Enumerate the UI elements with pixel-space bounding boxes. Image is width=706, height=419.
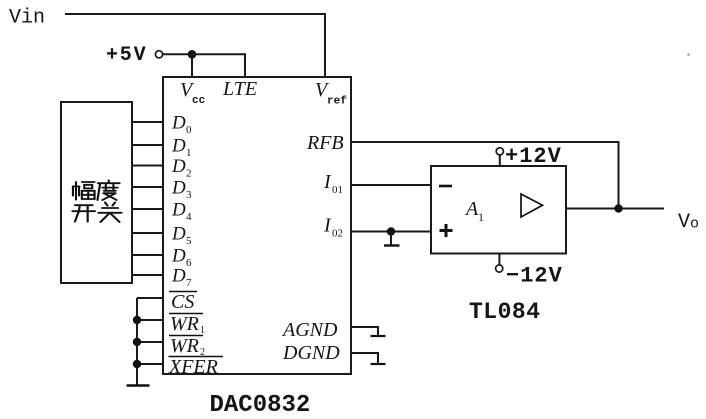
junction dot output node: [614, 204, 622, 212]
svg-text:D: D: [171, 246, 186, 267]
svg-text:7: 7: [186, 277, 192, 289]
svg-text:A: A: [464, 198, 479, 220]
power -12V label: [506, 264, 563, 289]
wire I02 to op-amp plus: [351, 231, 431, 233]
wire Vin to Vref: [65, 14, 325, 77]
wire D3: [132, 186, 163, 188]
wire +5V to LTE: [192, 54, 245, 77]
pin label WR1 (overline): [169, 313, 205, 336]
wire DGND: [351, 353, 378, 364]
svg-text:D: D: [171, 136, 186, 157]
svg-text:TL084: TL084: [469, 299, 541, 325]
pin label I02: [323, 215, 343, 240]
wire D0: [132, 121, 163, 123]
svg-text:+12V: +12V: [505, 144, 562, 169]
wire WR2: [137, 341, 163, 343]
pin label D5: [171, 224, 192, 248]
svg-text:01: 01: [332, 184, 343, 196]
svg-text:Vin: Vin: [9, 7, 45, 30]
svg-text:1: 1: [478, 210, 484, 224]
svg-text:AGND: AGND: [281, 319, 338, 341]
pin label D1: [171, 136, 192, 160]
op-amp gain triangle: [521, 194, 543, 217]
node Vin label: [9, 7, 45, 30]
svg-text:−12V: −12V: [506, 264, 563, 289]
pin label XFER (overline): [168, 356, 223, 378]
pin label D2: [171, 156, 192, 180]
svg-text:I: I: [323, 171, 332, 193]
wire D5: [132, 232, 163, 234]
svg-text:D: D: [171, 113, 186, 134]
svg-text:D: D: [171, 178, 186, 199]
wire XFER: [137, 363, 163, 365]
char 关: [99, 202, 122, 222]
op-amp plus input sign: [440, 224, 453, 237]
pin label LTE: [222, 78, 257, 100]
svg-text:D: D: [171, 200, 186, 221]
svg-text:D: D: [171, 266, 186, 287]
svg-text:I: I: [323, 215, 332, 237]
svg-text:ref: ref: [327, 96, 347, 108]
svg-text:0: 0: [186, 124, 192, 136]
svg-text:5: 5: [186, 235, 192, 247]
wire D1: [132, 144, 163, 146]
svg-text:XFER: XFER: [168, 356, 218, 378]
junction dot XFER: [133, 360, 141, 368]
svg-text:WR: WR: [170, 313, 199, 335]
wire I01 to op-amp minus: [351, 184, 431, 186]
wire WR1: [137, 319, 163, 321]
wire Vcc stub: [191, 54, 193, 77]
pin label D4: [171, 200, 192, 224]
svg-text:6: 6: [186, 257, 192, 269]
char 幅: [73, 182, 95, 200]
wire D7: [132, 274, 163, 276]
pin label D3: [171, 178, 192, 202]
svg-text:02: 02: [332, 228, 343, 240]
wire +5V to Vcc junction: [163, 53, 192, 55]
char 度: [97, 180, 119, 200]
op-amp minus input sign: [439, 185, 452, 188]
wire D4: [132, 208, 163, 210]
op-amp name TL084: [469, 299, 541, 325]
pin label RFB: [306, 132, 344, 154]
power -12V terminal: [496, 254, 503, 272]
IC DAC0832 body: [163, 77, 351, 374]
pin label CS (overline): [169, 291, 197, 313]
svg-text:+5V: +5V: [106, 44, 147, 67]
svg-text:4: 4: [186, 211, 192, 223]
ground DGND: [371, 363, 386, 365]
pin label Vcc: [180, 79, 205, 107]
wire CS: [137, 297, 163, 299]
svg-text:DGND: DGND: [282, 342, 340, 364]
pin label Vref: [315, 79, 347, 108]
svg-text:2: 2: [186, 168, 192, 180]
svg-text:D: D: [171, 224, 186, 245]
node Vo label: [678, 211, 699, 234]
terminal +5V open circle: [155, 51, 162, 58]
svg-text:V: V: [678, 211, 690, 234]
char 开: [72, 205, 95, 221]
ground control bus: [127, 384, 150, 387]
wire D2: [132, 165, 163, 167]
op-amp label A1: [464, 198, 484, 224]
pin label D6: [171, 246, 192, 270]
junction dot +5V/Vcc: [188, 50, 197, 59]
svg-text:1: 1: [200, 325, 205, 336]
IC name DAC0832: [210, 392, 311, 419]
svg-text:3: 3: [186, 189, 192, 201]
junction dot I02 ground: [387, 227, 395, 235]
stray scan dot: [687, 53, 690, 56]
pin label WR2 (overline): [169, 335, 205, 358]
power +12V terminal: [496, 148, 503, 166]
ground I02: [384, 232, 400, 246]
svg-text:CS: CS: [171, 291, 194, 313]
pin label D7: [171, 266, 192, 290]
svg-text:LTE: LTE: [222, 78, 257, 100]
wire D6: [132, 254, 163, 256]
svg-text:RFB: RFB: [306, 132, 344, 154]
wire output Vo: [566, 208, 664, 210]
junction dot WR1: [133, 316, 141, 324]
op-amp A1 body: [431, 166, 566, 254]
svg-text:1: 1: [186, 147, 192, 159]
power +12V label: [505, 144, 562, 169]
wire AGND: [351, 327, 378, 336]
svg-text:cc: cc: [192, 95, 205, 107]
power +5V label: [106, 44, 147, 67]
svg-text:WR: WR: [170, 335, 199, 357]
svg-text:D: D: [171, 156, 186, 177]
wire RFB feedback: [351, 142, 619, 209]
ground AGND: [371, 335, 386, 337]
junction dot WR2: [133, 338, 141, 346]
wire control bus vertical: [136, 298, 138, 386]
svg-text:DAC0832: DAC0832: [210, 392, 311, 419]
label 幅度开关 (drawn strokes): [72, 180, 121, 222]
pin label I01: [323, 171, 343, 196]
pin label AGND: [281, 319, 338, 341]
svg-text:o: o: [690, 216, 699, 233]
pin label DGND: [282, 342, 340, 364]
block amplitude switch box: [61, 102, 132, 283]
pin label D0: [171, 113, 192, 137]
